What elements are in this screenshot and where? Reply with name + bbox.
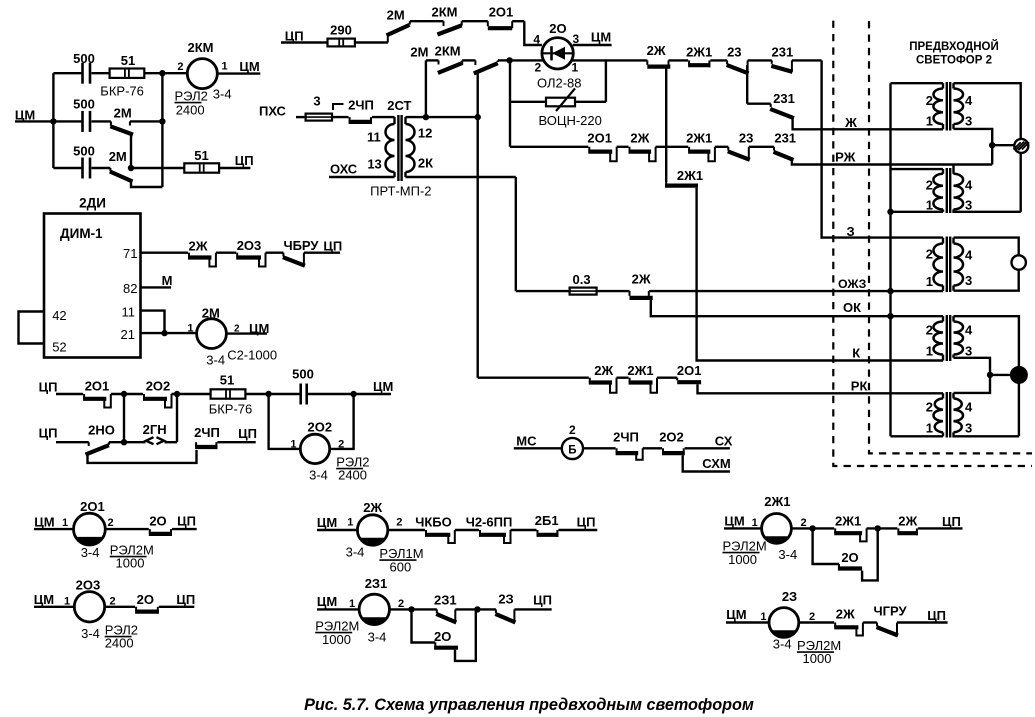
svg-text:2З: 2З bbox=[498, 592, 513, 607]
node main-line junction bbox=[506, 57, 512, 63]
svg-text:2О2: 2О2 bbox=[146, 379, 171, 394]
svg-text:ЦМ: ЦМ bbox=[591, 30, 611, 45]
svg-text:1: 1 bbox=[349, 598, 355, 610]
svg-text:РЭЛ2: РЭЛ2 bbox=[175, 89, 208, 104]
resistor 0.3 bbox=[570, 288, 597, 295]
svg-text:2: 2 bbox=[809, 611, 815, 623]
svg-text:2ДИ: 2ДИ bbox=[79, 196, 106, 211]
wire branch to 231-2 bbox=[747, 102, 771, 104]
svg-text:1: 1 bbox=[347, 517, 353, 529]
wire L to right vertical bbox=[131, 182, 162, 188]
svg-text:3: 3 bbox=[965, 421, 972, 436]
svg-text:ЦП: ЦП bbox=[285, 29, 304, 44]
wire T1 pin3 bbox=[954, 129, 993, 145]
wire T3 pin4 to lamp green bbox=[954, 238, 1019, 256]
svg-text:2О1: 2О1 bbox=[587, 131, 612, 146]
wire vertical C (to RK row) bbox=[477, 74, 479, 378]
svg-text:2Ж1: 2Ж1 bbox=[686, 45, 712, 60]
svg-text:2ЧП: 2ЧП bbox=[194, 425, 220, 440]
svg-text:Ч2-6ПП: Ч2-6ПП bbox=[466, 515, 513, 530]
svg-text:ПРЕДВХОДНОЙ: ПРЕДВХОДНОЙ bbox=[909, 40, 999, 53]
svg-text:ЦМ: ЦМ bbox=[724, 514, 744, 529]
svg-text:2М: 2М bbox=[387, 8, 405, 23]
svg-text:ЧГРУ: ЧГРУ bbox=[873, 604, 907, 619]
wire varistor drop right bbox=[605, 60, 607, 101]
svg-text:3-4: 3-4 bbox=[81, 545, 100, 560]
svg-text:2Ж1: 2Ж1 bbox=[677, 168, 703, 183]
resistor 51 BKR-76 (row4) bbox=[211, 389, 246, 398]
relay 2Zh1 coil bbox=[762, 514, 792, 544]
svg-text:2З: 2З bbox=[782, 589, 797, 604]
resistor 290 bbox=[328, 39, 355, 47]
wire SHM branch bbox=[683, 455, 730, 471]
svg-text:2О: 2О bbox=[434, 629, 451, 644]
wire T4 pin4 right bbox=[954, 316, 1019, 368]
svg-text:РК: РК bbox=[851, 379, 868, 394]
relay B coil bbox=[562, 438, 583, 459]
svg-text:290: 290 bbox=[330, 23, 352, 38]
relay 2KM coil bbox=[187, 59, 217, 89]
svg-text:3-4: 3-4 bbox=[309, 468, 328, 483]
svg-text:М: М bbox=[162, 273, 173, 288]
relay 2Zh coil bbox=[357, 515, 387, 545]
svg-text:2Ж1: 2Ж1 bbox=[764, 494, 790, 509]
svg-text:2М: 2М bbox=[410, 45, 428, 60]
svg-text:231: 231 bbox=[772, 45, 794, 60]
svg-text:Ж: Ж bbox=[844, 115, 857, 130]
svg-text:3: 3 bbox=[965, 344, 972, 359]
svg-text:2ГН: 2ГН bbox=[143, 422, 167, 437]
node A1 bbox=[159, 70, 165, 76]
wire blade down to row3 bbox=[130, 134, 132, 169]
relay 2O2 coil bbox=[269, 394, 301, 449]
node B3 bbox=[265, 391, 271, 397]
svg-text:600: 600 bbox=[390, 560, 412, 575]
wire row3 bbox=[53, 167, 81, 169]
svg-text:2НО: 2НО bbox=[88, 423, 115, 438]
wire lamp green bottom bbox=[954, 270, 1019, 291]
svg-text:2Ж1: 2Ж1 bbox=[686, 131, 712, 146]
wire top level bbox=[410, 20, 444, 22]
svg-text:2: 2 bbox=[926, 93, 933, 108]
wire main line out of 2O bbox=[572, 59, 648, 61]
svg-text:2Ж: 2Ж bbox=[647, 43, 666, 58]
svg-text:23: 23 bbox=[727, 45, 741, 60]
varistor VOTsN-220 bbox=[546, 98, 575, 107]
svg-text:2: 2 bbox=[177, 61, 183, 73]
wire row2 bbox=[53, 120, 81, 122]
wire 2K bottom bbox=[406, 176, 516, 178]
svg-text:3: 3 bbox=[965, 114, 972, 129]
svg-text:1: 1 bbox=[572, 61, 579, 75]
svg-text:4: 4 bbox=[965, 400, 973, 415]
wire vertical B (to OZhZ row) bbox=[515, 177, 517, 291]
wire branch down from 2Zh bbox=[665, 68, 667, 182]
svg-text:ПРТ-МП-2: ПРТ-МП-2 bbox=[370, 184, 431, 199]
svg-text:2Ж: 2Ж bbox=[632, 272, 651, 287]
wire RZh up to lamp junction bbox=[991, 145, 993, 164]
svg-text:2О1: 2О1 bbox=[489, 5, 514, 20]
svg-text:СХ: СХ bbox=[715, 434, 733, 449]
svg-text:11: 11 bbox=[122, 305, 136, 320]
svg-text:231: 231 bbox=[773, 91, 795, 106]
svg-text:СВЕТОФОР 2: СВЕТОФОР 2 bbox=[916, 55, 992, 67]
svg-text:3: 3 bbox=[313, 94, 320, 109]
svg-text:ЦП: ЦП bbox=[577, 515, 596, 530]
transformer T5 RK bbox=[942, 393, 944, 398]
capacitor 500 (top) bbox=[81, 63, 84, 84]
svg-text:4: 4 bbox=[965, 323, 973, 338]
svg-text:БКР-76: БКР-76 bbox=[209, 402, 253, 417]
node Z1-b bbox=[474, 606, 480, 612]
wire RK line bbox=[698, 384, 944, 393]
capacitor 500 (bot) bbox=[81, 158, 84, 179]
svg-text:4: 4 bbox=[965, 93, 973, 108]
svg-text:Рис. 5.7. Схема управления пре: Рис. 5.7. Схема управления предвходным с… bbox=[304, 696, 754, 714]
svg-text:2О1: 2О1 bbox=[677, 363, 702, 378]
svg-text:2М: 2М bbox=[202, 306, 220, 321]
contact 2O bypass (2Zh1) bbox=[813, 528, 839, 564]
svg-text:2: 2 bbox=[396, 517, 402, 529]
node T-top-1 bbox=[423, 114, 429, 120]
svg-text:1: 1 bbox=[64, 596, 70, 608]
svg-text:2Ж: 2Ж bbox=[189, 238, 208, 253]
wire 2NO bypass down bbox=[88, 450, 197, 463]
svg-text:ЦП: ЦП bbox=[235, 153, 254, 168]
wire OZhZ feed bbox=[516, 290, 570, 292]
svg-text:2: 2 bbox=[926, 178, 933, 193]
svg-text:2Ж: 2Ж bbox=[363, 500, 382, 515]
svg-text:2: 2 bbox=[338, 439, 344, 451]
relay 2O3 coil bbox=[74, 592, 104, 622]
wire red lamp bottom bus bbox=[1018, 382, 1020, 436]
wire down to relay 2O pin4 bbox=[524, 21, 542, 45]
svg-text:1: 1 bbox=[926, 114, 933, 129]
wire from transformer up bbox=[425, 60, 427, 117]
wire right bus seg2 bbox=[1020, 153, 1022, 212]
wire pin82 M bbox=[141, 286, 172, 288]
svg-text:1000: 1000 bbox=[116, 556, 145, 571]
svg-text:2М: 2М bbox=[109, 149, 127, 164]
node lamp1 junction bbox=[989, 142, 995, 148]
svg-text:2: 2 bbox=[926, 247, 933, 262]
transformer T3 Z bbox=[942, 238, 944, 244]
svg-text:2М: 2М bbox=[114, 105, 132, 120]
contact 2O bypass (2Z1) bbox=[412, 609, 436, 642]
node B1 bbox=[121, 391, 127, 397]
svg-text:ЦМ: ЦМ bbox=[373, 379, 393, 394]
svg-text:3-4: 3-4 bbox=[773, 637, 792, 652]
wire branch 23-231 down bbox=[746, 65, 748, 104]
wire T1 pin4 to right bus bbox=[954, 83, 1021, 139]
node B4 bbox=[350, 391, 356, 397]
svg-text:2О: 2О bbox=[137, 592, 154, 607]
node B5 bbox=[121, 439, 127, 445]
svg-text:С2-1000: С2-1000 bbox=[227, 348, 277, 363]
wire vertical B1-B5 bbox=[123, 394, 125, 442]
cable dashed line outer bbox=[833, 21, 1032, 466]
svg-text:2О2: 2О2 bbox=[659, 430, 684, 445]
svg-text:11: 11 bbox=[367, 130, 381, 145]
svg-text:2Ж1: 2Ж1 bbox=[627, 363, 653, 378]
svg-text:ЦП: ЦП bbox=[176, 592, 195, 607]
transformer T2 RZh bbox=[891, 168, 944, 170]
svg-text:3-4: 3-4 bbox=[206, 353, 225, 368]
svg-text:2: 2 bbox=[535, 61, 542, 75]
svg-text:42: 42 bbox=[52, 308, 66, 323]
svg-text:23: 23 bbox=[739, 131, 753, 146]
node pin21 bbox=[161, 330, 167, 336]
svg-text:1: 1 bbox=[62, 517, 68, 529]
svg-text:1: 1 bbox=[926, 421, 933, 436]
svg-text:71: 71 bbox=[123, 246, 137, 261]
polarity bracket bbox=[333, 104, 344, 110]
svg-text:ЦМ: ЦМ bbox=[34, 515, 54, 530]
wire right vertical bbox=[161, 73, 163, 187]
wire vertical A bbox=[509, 60, 511, 146]
relay 2Z1 coil bbox=[359, 594, 389, 624]
svg-text:2400: 2400 bbox=[105, 636, 134, 651]
svg-text:ВОЦН-220: ВОЦН-220 bbox=[539, 113, 602, 128]
svg-text:4: 4 bbox=[965, 248, 973, 263]
node A2 bbox=[159, 118, 165, 124]
wire Zh line bbox=[793, 118, 943, 129]
svg-text:2О3: 2О3 bbox=[76, 578, 101, 593]
wire pin11 bbox=[141, 311, 165, 334]
svg-text:ЧКБО: ЧКБО bbox=[415, 515, 452, 530]
relay 2M coil C2-1000 bbox=[197, 319, 227, 349]
svg-text:3-4: 3-4 bbox=[346, 545, 365, 560]
svg-text:1: 1 bbox=[290, 439, 296, 451]
svg-text:2Ж: 2Ж bbox=[898, 514, 917, 529]
relay 2O1 coil bbox=[74, 513, 106, 545]
node OZhZ-bus bbox=[887, 288, 893, 294]
wire 12 top to contacts bbox=[406, 116, 478, 118]
svg-text:21: 21 bbox=[121, 327, 135, 342]
svg-text:13: 13 bbox=[367, 157, 381, 172]
svg-text:ЦМ: ЦМ bbox=[317, 515, 337, 530]
resistor 51 (row3) bbox=[184, 163, 219, 172]
svg-text:ЦМ: ЦМ bbox=[239, 59, 259, 74]
svg-text:2О3: 2О3 bbox=[237, 238, 262, 253]
svg-text:ОК: ОК bbox=[843, 300, 861, 315]
transformer T1 Zh bbox=[891, 82, 944, 84]
svg-text:ДИМ-1: ДИМ-1 bbox=[60, 226, 103, 241]
node A3 bbox=[128, 165, 134, 171]
svg-text:3-4: 3-4 bbox=[81, 626, 100, 641]
svg-text:2Б1: 2Б1 bbox=[535, 513, 559, 528]
wire 2O pin3 to CM bbox=[573, 44, 612, 46]
wire OK branch bbox=[651, 300, 943, 316]
node bus-211 bbox=[887, 209, 893, 215]
wire row3 feed bbox=[510, 146, 588, 148]
svg-text:2Ж: 2Ж bbox=[836, 607, 855, 622]
svg-text:1000: 1000 bbox=[803, 651, 832, 666]
fuse 3 bbox=[306, 114, 332, 121]
wire pin21 bbox=[141, 332, 197, 334]
transformer T4 K bbox=[942, 316, 944, 321]
svg-text:51: 51 bbox=[194, 148, 208, 163]
node Zh1-b bbox=[875, 525, 881, 531]
wire to lamp1 bbox=[992, 144, 1014, 146]
svg-text:ОЖЗ: ОЖЗ bbox=[838, 277, 867, 291]
wire T5 pin4 up to junction bbox=[954, 375, 991, 393]
wire signal left bus bbox=[889, 83, 891, 436]
wire pin71 bbox=[141, 251, 189, 253]
svg-text:1: 1 bbox=[926, 344, 933, 359]
svg-text:ЦМ: ЦМ bbox=[34, 592, 54, 607]
block 2DI DIM-1 bbox=[44, 214, 141, 358]
lamp green open bbox=[1012, 255, 1026, 269]
node Zh1-a bbox=[809, 525, 815, 531]
svg-text:4: 4 bbox=[965, 178, 973, 193]
svg-text:ЦМ: ЦМ bbox=[249, 321, 269, 336]
node bus-left junction bbox=[50, 118, 56, 124]
svg-text:3: 3 bbox=[965, 198, 972, 213]
svg-text:2О1: 2О1 bbox=[85, 379, 110, 394]
wire T4 pin3 bbox=[954, 358, 991, 375]
cable dashed line inner bbox=[869, 21, 1032, 453]
svg-text:1: 1 bbox=[222, 61, 228, 73]
svg-text:3-4: 3-4 bbox=[368, 630, 387, 645]
svg-text:2ЧП: 2ЧП bbox=[348, 98, 374, 113]
wire OZhZ line bbox=[649, 290, 943, 292]
node B2 bbox=[174, 391, 180, 397]
svg-text:РЖ: РЖ bbox=[835, 150, 855, 165]
svg-text:1000: 1000 bbox=[728, 552, 757, 567]
wire RK feed bbox=[478, 377, 589, 379]
svg-text:3-4: 3-4 bbox=[213, 87, 232, 102]
svg-text:52: 52 bbox=[52, 340, 66, 355]
svg-text:БКР-76: БКР-76 bbox=[100, 84, 144, 99]
svg-text:2К: 2К bbox=[418, 156, 433, 171]
wire row1 top bbox=[53, 72, 81, 74]
svg-text:2Ж1: 2Ж1 bbox=[835, 514, 861, 529]
svg-text:2О1: 2О1 bbox=[80, 499, 105, 514]
svg-text:2З1: 2З1 bbox=[365, 576, 388, 591]
wire left bracket of 2DI bbox=[19, 312, 45, 344]
svg-text:2О: 2О bbox=[841, 550, 858, 565]
wire main line into 2O bbox=[510, 59, 544, 61]
svg-text:2КМ: 2КМ bbox=[435, 44, 461, 59]
svg-text:ЧБРУ: ЧБРУ bbox=[283, 238, 319, 253]
svg-text:МС: МС bbox=[516, 434, 537, 449]
wire vertical B2 down bbox=[176, 394, 178, 442]
svg-text:2: 2 bbox=[926, 400, 933, 415]
svg-text:ЦМ: ЦМ bbox=[726, 607, 746, 622]
node lamp red junction bbox=[987, 372, 993, 378]
svg-text:2О: 2О bbox=[549, 21, 566, 36]
svg-text:СХМ: СХМ bbox=[702, 456, 730, 471]
svg-text:2КМ: 2КМ bbox=[432, 5, 458, 20]
svg-text:1: 1 bbox=[760, 611, 766, 623]
svg-text:ЦП: ЦП bbox=[238, 426, 257, 441]
svg-text:3: 3 bbox=[965, 273, 972, 288]
svg-text:500: 500 bbox=[292, 367, 314, 382]
svg-text:500: 500 bbox=[73, 51, 95, 66]
wire corner down to Z line bbox=[822, 60, 943, 237]
svg-text:500: 500 bbox=[73, 97, 95, 112]
svg-text:1: 1 bbox=[752, 517, 758, 529]
svg-text:1: 1 bbox=[926, 274, 933, 289]
wire varistor row bbox=[510, 101, 546, 103]
svg-text:2: 2 bbox=[926, 323, 933, 338]
svg-text:2ЧП: 2ЧП bbox=[613, 430, 639, 445]
svg-text:ПХС: ПХС bbox=[259, 104, 287, 119]
svg-text:2Ж: 2Ж bbox=[594, 363, 613, 378]
svg-text:51: 51 bbox=[121, 53, 135, 68]
wire row3 to resistor bbox=[131, 167, 184, 169]
svg-text:ОХС: ОХС bbox=[330, 162, 358, 177]
wire to red lamp bbox=[990, 374, 1012, 376]
svg-text:3-4: 3-4 bbox=[778, 547, 797, 562]
svg-text:82: 82 bbox=[123, 281, 137, 296]
svg-text:2Ж: 2Ж bbox=[630, 131, 649, 146]
svg-text:Б: Б bbox=[568, 445, 576, 457]
wire 2KM to CM bbox=[217, 72, 260, 74]
svg-text:З: З bbox=[847, 224, 855, 239]
resistor 51 BKR-76 bbox=[110, 69, 145, 78]
svg-text:2400: 2400 bbox=[176, 103, 205, 118]
svg-text:2О: 2О bbox=[149, 514, 166, 529]
svg-text:2КМ: 2КМ bbox=[188, 40, 214, 55]
lamp red filled bbox=[1011, 367, 1027, 383]
relay 2Z coil bbox=[769, 608, 799, 638]
svg-text:4: 4 bbox=[533, 33, 540, 47]
svg-text:2: 2 bbox=[569, 423, 576, 437]
svg-text:12: 12 bbox=[418, 126, 432, 141]
svg-text:ОЛ2-88: ОЛ2-88 bbox=[537, 76, 582, 91]
wire RZh line bbox=[792, 160, 992, 165]
svg-text:ЦП: ЦП bbox=[323, 238, 342, 253]
svg-text:231: 231 bbox=[774, 131, 796, 146]
node T-top-2 bbox=[475, 114, 481, 120]
svg-text:1000: 1000 bbox=[322, 632, 351, 647]
node OK-bus bbox=[887, 313, 893, 319]
svg-text:ЦП: ЦП bbox=[927, 608, 946, 623]
node Z1-a bbox=[408, 606, 414, 612]
svg-text:0.3: 0.3 bbox=[573, 272, 591, 287]
svg-text:ЦП: ЦП bbox=[39, 426, 58, 441]
svg-text:2: 2 bbox=[108, 517, 114, 529]
svg-text:1: 1 bbox=[187, 323, 193, 335]
svg-text:ЦП: ЦП bbox=[177, 514, 196, 529]
svg-text:ЦП: ЦП bbox=[942, 514, 961, 529]
svg-text:2З1: 2З1 bbox=[434, 593, 457, 608]
svg-text:ЦП: ЦП bbox=[533, 593, 552, 608]
svg-text:51: 51 bbox=[220, 373, 234, 388]
svg-text:2О2: 2О2 bbox=[308, 420, 333, 435]
lamp yellow hatched bbox=[1014, 139, 1028, 153]
wire left vertical bus bbox=[52, 73, 54, 168]
svg-text:ЦМ: ЦМ bbox=[317, 594, 337, 609]
capacitor 500 (mid) bbox=[81, 111, 84, 132]
svg-text:2400: 2400 bbox=[338, 468, 367, 483]
svg-text:К: К bbox=[852, 346, 860, 361]
relay 2O coil OL2-88 bbox=[542, 38, 573, 69]
capacitor 500 (row4) bbox=[299, 384, 302, 405]
wire K line bbox=[697, 188, 943, 361]
svg-text:1: 1 bbox=[926, 198, 933, 213]
svg-text:500: 500 bbox=[73, 144, 95, 159]
svg-text:ЦП: ЦП bbox=[39, 380, 58, 395]
svg-text:2СТ: 2СТ bbox=[387, 98, 411, 113]
